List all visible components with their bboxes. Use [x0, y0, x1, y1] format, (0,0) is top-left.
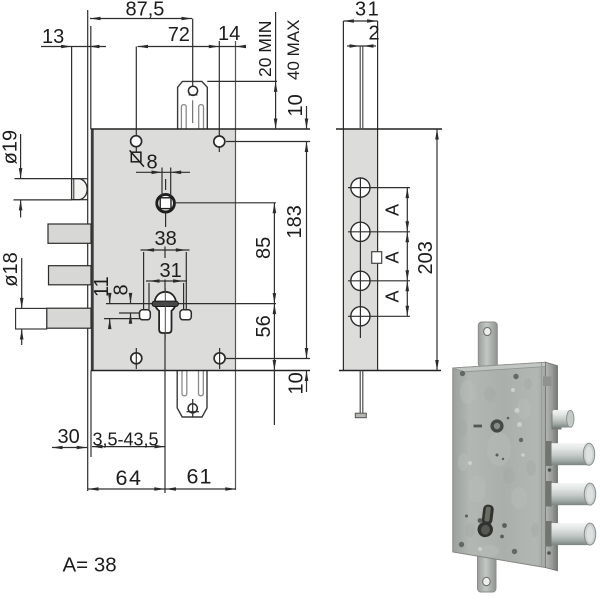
svg-text:31: 31 — [355, 0, 380, 21]
svg-text:A= 38: A= 38 — [63, 554, 117, 577]
dim 11 — [91, 276, 113, 329]
svg-text:31: 31 — [160, 260, 182, 282]
case right edge extension line — [235, 41, 237, 490]
strip bottom edge — [339, 370, 441, 372]
top tab left slot — [181, 105, 186, 130]
svg-text:A: A — [383, 204, 403, 216]
svg-text:A: A — [383, 251, 403, 263]
deadbolt 3 — [47, 308, 91, 328]
dim 8 cylinder — [111, 284, 133, 323]
photo small dark marks — [465, 417, 509, 539]
svg-text:13: 13 — [42, 26, 64, 48]
photo latch stub — [552, 410, 575, 430]
bottom mounting tab — [177, 371, 207, 418]
dim 38 — [141, 228, 190, 310]
photo euro cylinder keyhole — [477, 504, 496, 538]
bottom tab hole — [188, 404, 197, 413]
bottom tab left slot — [182, 371, 187, 396]
svg-text:38: 38 — [155, 228, 177, 250]
photo bolt 3 — [552, 523, 596, 545]
svg-text:3,5-43,5: 3,5-43,5 — [93, 430, 159, 450]
dim 183 — [284, 142, 308, 359]
svg-text:20 MIN: 20 MIN — [255, 21, 275, 77]
svg-text:61: 61 — [187, 465, 213, 489]
photo lock body front face — [453, 362, 546, 567]
photo body right side face — [546, 362, 558, 571]
photo face crease line — [541, 363, 543, 567]
top mounting tab — [178, 81, 208, 129]
svg-text:203: 203 — [415, 241, 437, 274]
dim 87,5 — [90, 0, 193, 86]
blade upper — [359, 46, 361, 130]
svg-text:87,5: 87,5 — [126, 0, 165, 20]
cylinder fixing lug left — [140, 310, 151, 320]
lug reference lines — [119, 312, 140, 314]
cylinder horizontal centerline — [106, 303, 276, 305]
deadbolt 3 extended ghost — [16, 308, 47, 329]
keyhole centerline — [164, 288, 166, 340]
top tab hole — [188, 86, 197, 95]
dim 64 and 61 — [88, 465, 236, 491]
dim o19 — [0, 130, 72, 218]
dim 10 top — [285, 94, 308, 129]
photo bottom strap — [478, 554, 497, 592]
blade foot — [355, 413, 366, 418]
bottom screw holes — [131, 348, 310, 369]
case bottom edge — [91, 370, 310, 372]
dim 31 cylinder — [146, 260, 187, 310]
follower square spindle hub — [157, 179, 276, 227]
top tab right slot — [199, 105, 204, 130]
svg-text:8: 8 — [147, 152, 158, 174]
dim square 8 at follower — [130, 150, 190, 196]
photo small rivets — [468, 388, 525, 551]
keyway slot — [152, 301, 178, 306]
strip hole 2 — [348, 222, 410, 271]
photo top strap — [478, 322, 497, 367]
photo follower hub — [490, 419, 503, 432]
svg-text:A: A — [383, 290, 403, 302]
svg-text:ø19: ø19 — [0, 130, 22, 164]
blade lower — [359, 371, 361, 414]
photo corner screws — [459, 371, 523, 554]
dim 3,5-43,5 — [92, 430, 165, 450]
cylinder centerline vertical segments — [164, 247, 166, 259]
lock case body — [91, 129, 236, 371]
svg-text:8: 8 — [111, 284, 133, 295]
svg-text:183: 183 — [284, 205, 306, 238]
svg-text:72: 72 — [168, 24, 190, 46]
photo bolt 1 — [552, 443, 595, 465]
strip left edge / extension — [342, 21, 344, 371]
photo bolt guide blocks — [546, 441, 552, 547]
dim 10 bottom — [286, 371, 309, 395]
dim 20 MIN / 40 MAX — [207, 12, 303, 129]
strip top edge — [336, 128, 442, 130]
svg-text:30: 30 — [58, 426, 80, 448]
svg-text:10: 10 — [285, 94, 307, 116]
deadbolt 1 — [48, 224, 91, 243]
faceplate inner line upper — [90, 26, 92, 129]
svg-text:56: 56 — [253, 315, 275, 337]
photo bolt 2 — [552, 483, 596, 505]
dim 72 and 14 — [138, 23, 247, 48]
top screw holes — [131, 41, 310, 152]
bottom tab right slot — [199, 371, 204, 396]
svg-text:2: 2 — [369, 23, 380, 45]
svg-text:64: 64 — [116, 466, 143, 490]
cylinder fixing lug right — [180, 310, 191, 320]
svg-text:14: 14 — [218, 23, 240, 45]
faceplate strip — [343, 129, 377, 371]
dim 85 and 56 — [253, 203, 276, 425]
deadbolt 2 — [49, 266, 92, 285]
strip hole 1 — [348, 178, 410, 222]
dim 13 — [41, 26, 106, 179]
strip notch — [372, 252, 382, 264]
dim 30 — [52, 426, 87, 449]
faceplate outer line — [87, 10, 89, 491]
latch bolt o19 — [72, 179, 88, 200]
photo side screws — [547, 380, 551, 555]
photo body top sliver — [453, 362, 558, 372]
euro cylinder keyhole — [155, 292, 176, 333]
dim 2 blade — [347, 23, 380, 48]
svg-text:85: 85 — [253, 237, 275, 259]
dim o18 — [0, 252, 24, 345]
svg-text:10: 10 — [286, 372, 308, 394]
strip hole 3 — [348, 271, 410, 307]
dim 31 strip — [343, 0, 380, 23]
case top edge — [91, 128, 310, 130]
photo side bracket — [543, 377, 552, 387]
photo face mottling — [458, 380, 531, 557]
faceplate line below case — [90, 371, 92, 458]
dim 203 — [415, 129, 439, 371]
dim A spacings — [383, 188, 410, 317]
strip right edge / extension — [377, 21, 379, 371]
top tab centerline — [192, 100, 194, 123]
svg-text:40 MAX: 40 MAX — [284, 20, 303, 80]
strip hole 4 — [348, 307, 410, 339]
svg-text:ø18: ø18 — [0, 252, 22, 286]
